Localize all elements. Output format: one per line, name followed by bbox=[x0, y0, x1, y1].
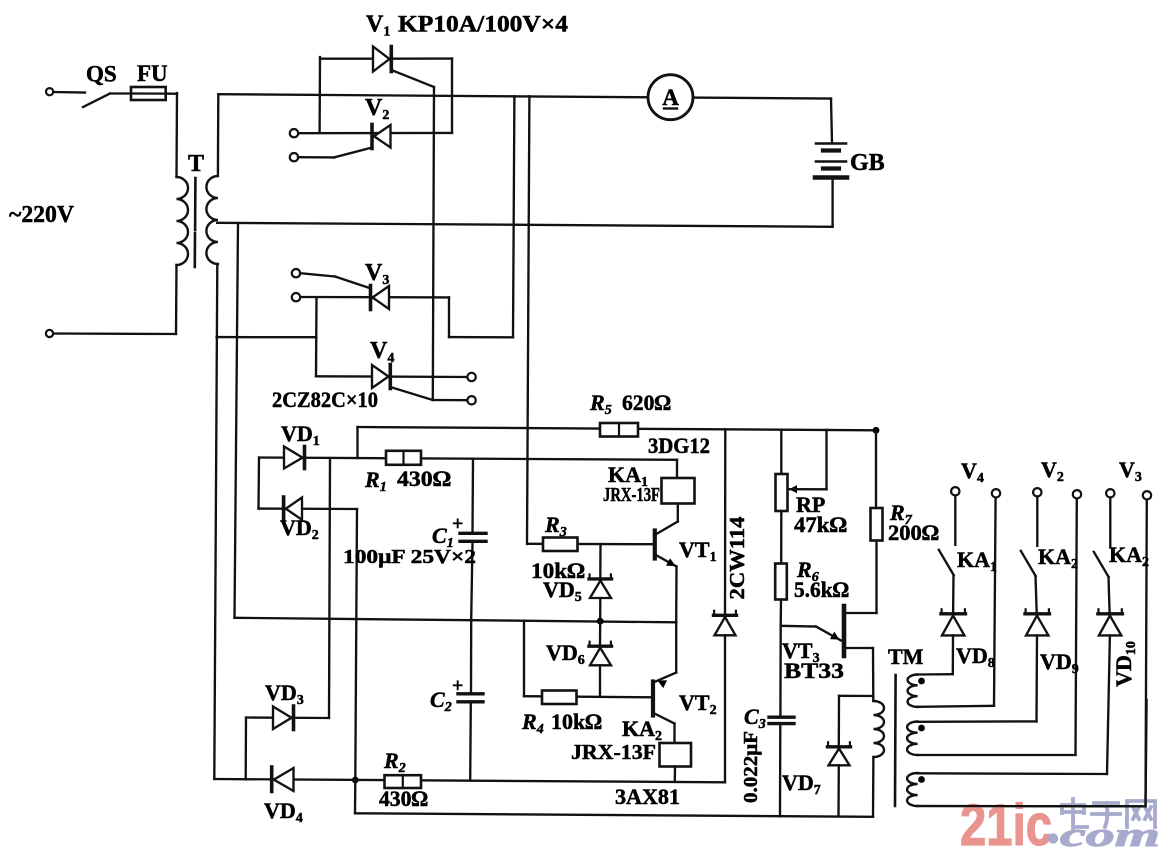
svg-text:+: + bbox=[452, 675, 463, 697]
svg-text:~220V: ~220V bbox=[9, 202, 75, 228]
svg-text:FU: FU bbox=[137, 61, 168, 86]
svg-text:KP10A/100V×4: KP10A/100V×4 bbox=[398, 12, 569, 37]
svg-text:JRX-13F: JRX-13F bbox=[571, 740, 656, 764]
svg-text:2CW114: 2CW114 bbox=[725, 516, 749, 600]
svg-text:5.6kΩ: 5.6kΩ bbox=[794, 577, 849, 602]
svg-text:T: T bbox=[188, 151, 204, 177]
svg-text:430Ω: 430Ω bbox=[379, 786, 428, 811]
svg-text:3AX81: 3AX81 bbox=[615, 784, 680, 809]
svg-text:+: + bbox=[452, 513, 463, 535]
svg-text:com: com bbox=[1060, 817, 1160, 848]
svg-text:TM: TM bbox=[888, 644, 924, 669]
svg-text:430Ω: 430Ω bbox=[397, 466, 451, 491]
svg-text:100μF 25V×2: 100μF 25V×2 bbox=[343, 546, 476, 568]
svg-text:200Ω: 200Ω bbox=[888, 520, 939, 545]
svg-text:BT33: BT33 bbox=[784, 658, 844, 683]
svg-text:0.022μF: 0.022μF bbox=[740, 731, 762, 803]
svg-text:10kΩ: 10kΩ bbox=[551, 709, 602, 734]
svg-text:620Ω: 620Ω bbox=[622, 390, 671, 415]
svg-text:A: A bbox=[662, 85, 679, 110]
svg-text:GB: GB bbox=[850, 150, 885, 176]
svg-text:47kΩ: 47kΩ bbox=[794, 512, 847, 537]
svg-text:3DG12: 3DG12 bbox=[648, 433, 710, 458]
svg-text:QS: QS bbox=[86, 62, 117, 87]
svg-text:21ic: 21ic bbox=[960, 793, 1052, 848]
svg-text:JRX-13F: JRX-13F bbox=[603, 484, 660, 506]
svg-text:2CZ82C×10: 2CZ82C×10 bbox=[272, 387, 378, 412]
